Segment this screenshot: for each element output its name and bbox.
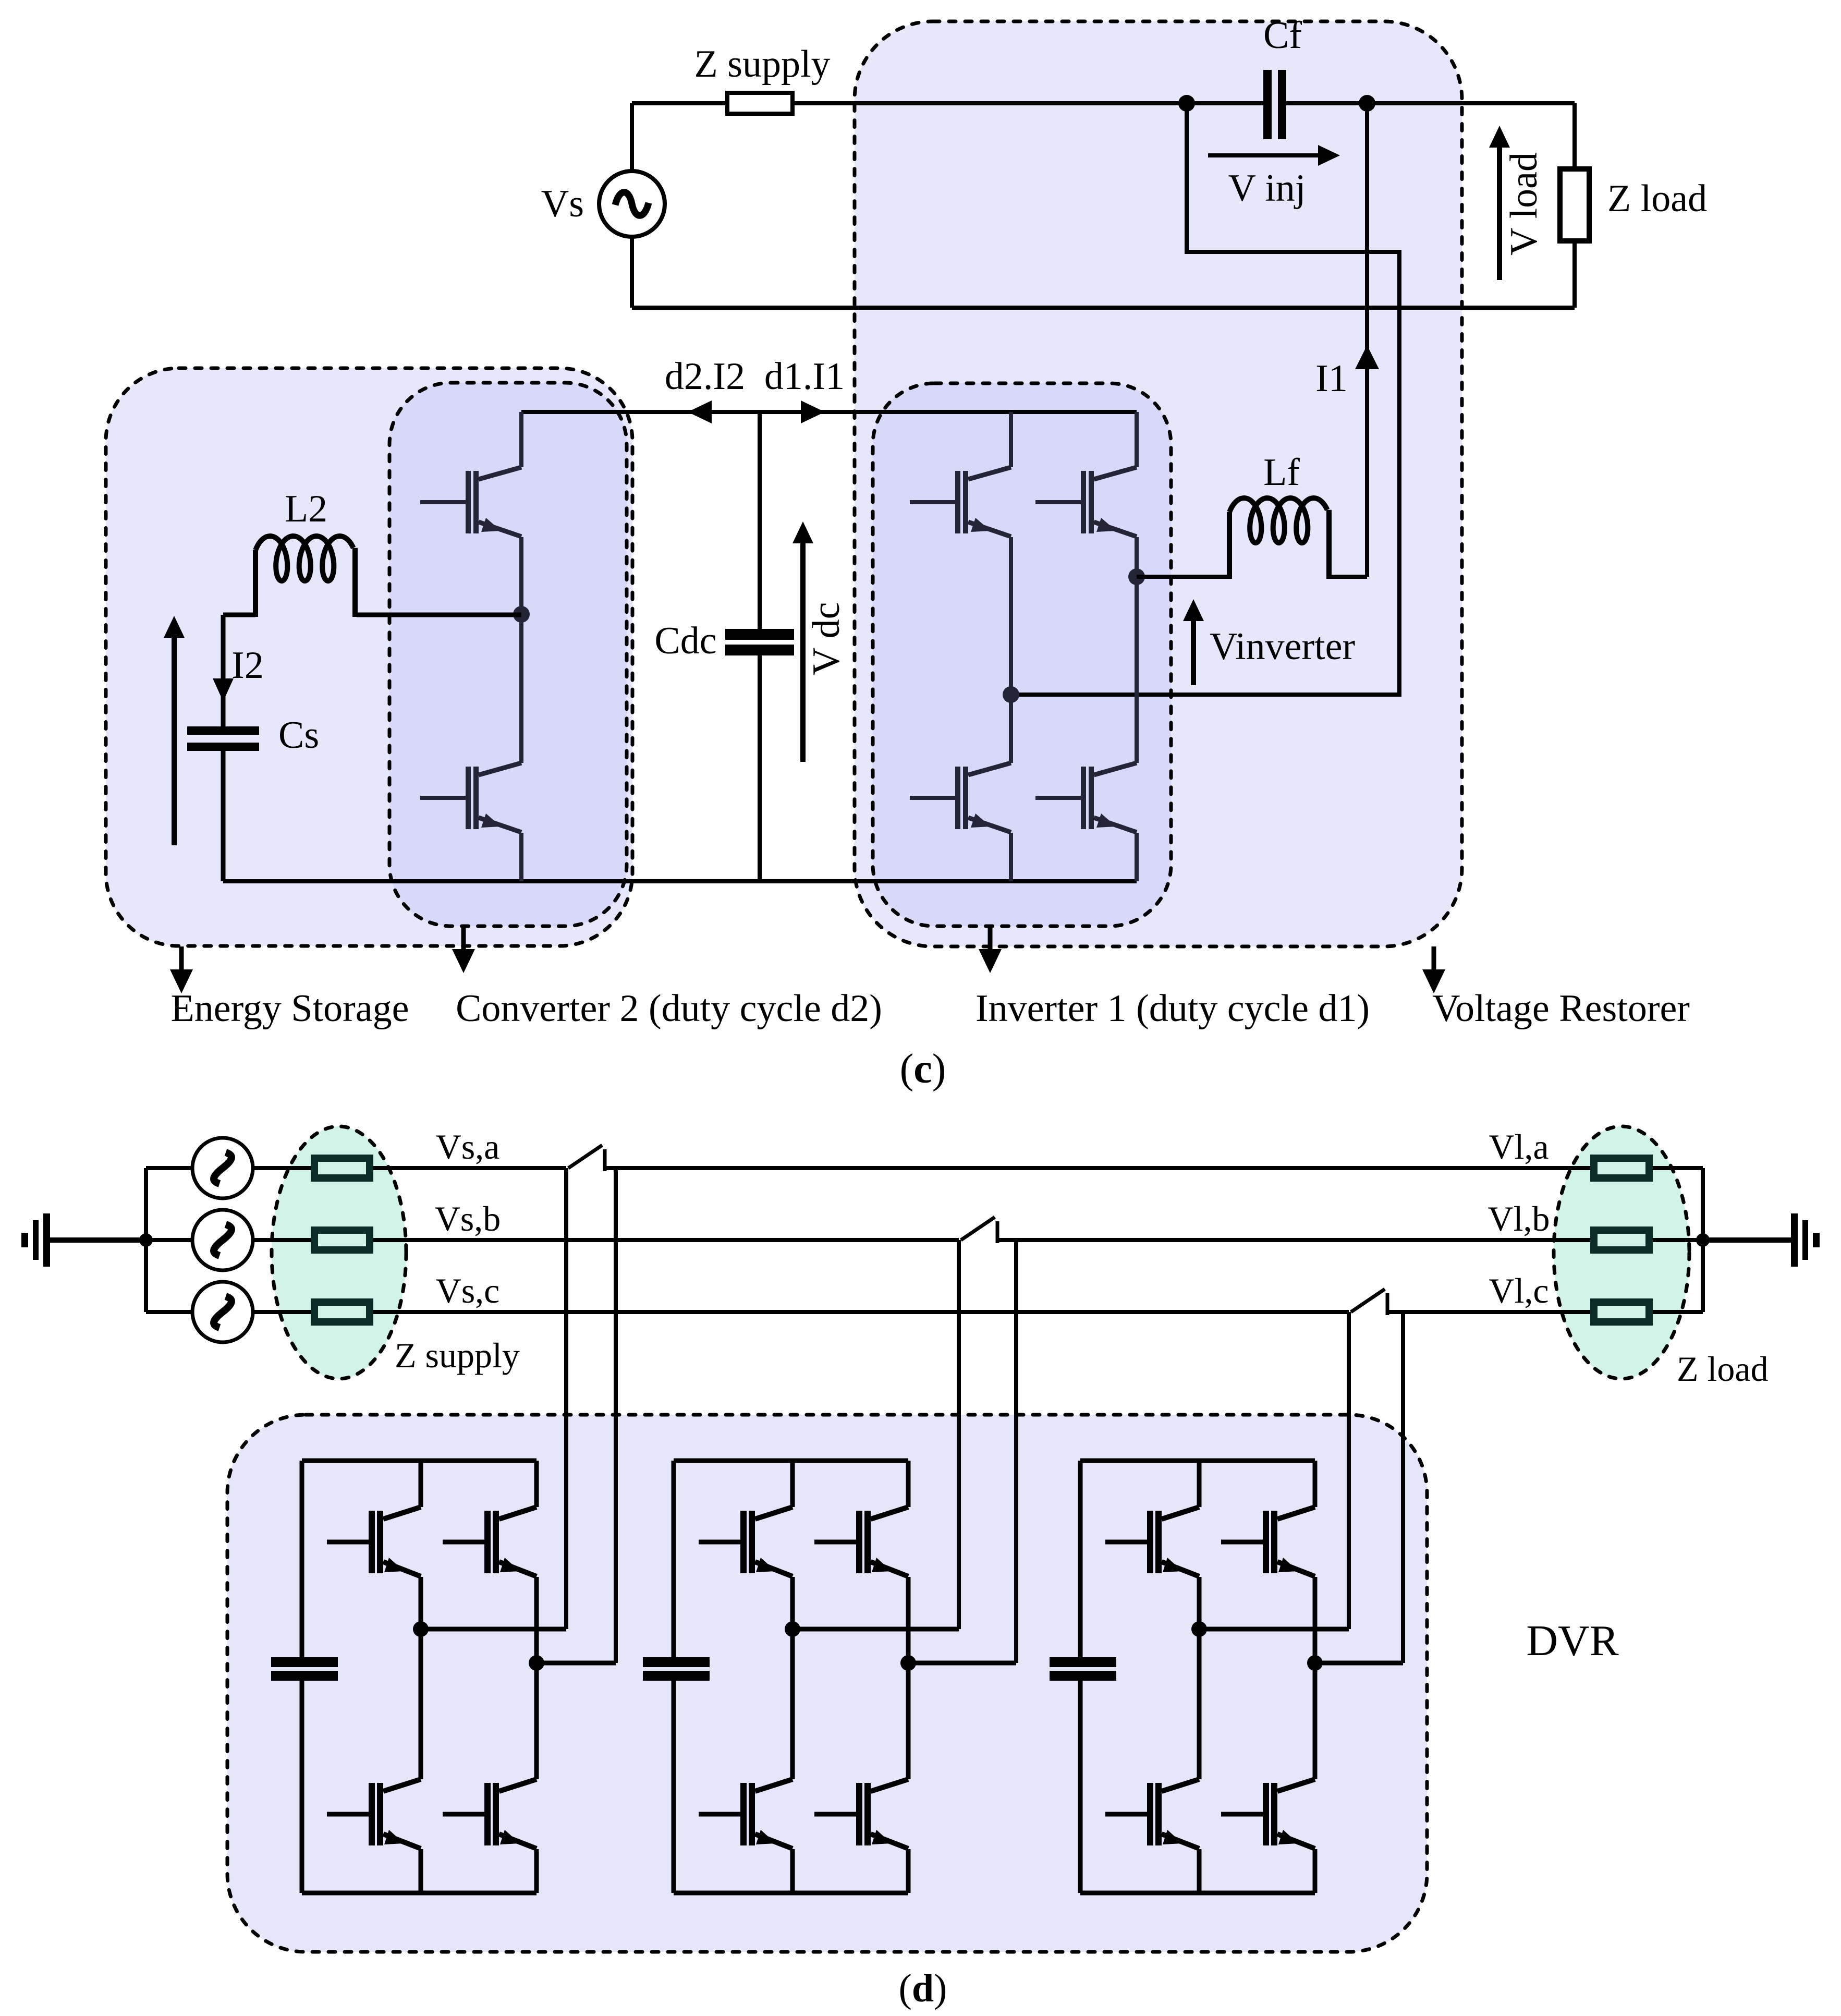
svg-text:Vl,b: Vl,b [1488, 1199, 1550, 1238]
svg-text:Voltage Restorer: Voltage Restorer [1432, 987, 1690, 1030]
svg-text:Vs: Vs [541, 183, 584, 225]
svg-text:Z load: Z load [1607, 177, 1707, 220]
svg-text:Z load: Z load [1677, 1349, 1769, 1389]
svg-text:d1.I1: d1.I1 [764, 355, 845, 398]
svg-text:Vinverter: Vinverter [1210, 625, 1355, 668]
svg-text:d2.I2: d2.I2 [665, 355, 745, 398]
svg-text:Cf: Cf [1263, 14, 1302, 57]
svg-text:Cdc: Cdc [654, 620, 716, 662]
svg-text:Z supply: Z supply [395, 1335, 520, 1375]
svg-text:Vs,a: Vs,a [436, 1127, 500, 1167]
svg-text:Vl,c: Vl,c [1489, 1271, 1549, 1310]
svg-text:I2: I2 [231, 644, 264, 687]
svg-text:Energy Storage: Energy Storage [171, 987, 409, 1030]
svg-text:Cs: Cs [278, 714, 319, 757]
svg-text:(c): (c) [900, 1046, 946, 1092]
svg-text:L2: L2 [285, 488, 327, 530]
svg-text:V dc: V dc [805, 602, 848, 675]
svg-text:Vl,a: Vl,a [1489, 1127, 1549, 1167]
svg-text:V inj: V inj [1228, 167, 1306, 210]
svg-text:Inverter 1 (duty cycle d1): Inverter 1 (duty cycle d1) [976, 987, 1370, 1030]
svg-text:I1: I1 [1315, 357, 1348, 400]
svg-text:Lf: Lf [1263, 451, 1300, 494]
svg-text:Vs,b: Vs,b [435, 1199, 501, 1238]
svg-text:V load: V load [1503, 152, 1545, 256]
svg-text:DVR: DVR [1526, 1617, 1618, 1665]
svg-text:Z supply: Z supply [694, 43, 830, 86]
svg-text:Vs,c: Vs,c [436, 1271, 500, 1310]
svg-text:Converter 2 (duty cycle d2): Converter 2 (duty cycle d2) [456, 987, 882, 1030]
svg-text:(d): (d) [899, 1966, 947, 2010]
